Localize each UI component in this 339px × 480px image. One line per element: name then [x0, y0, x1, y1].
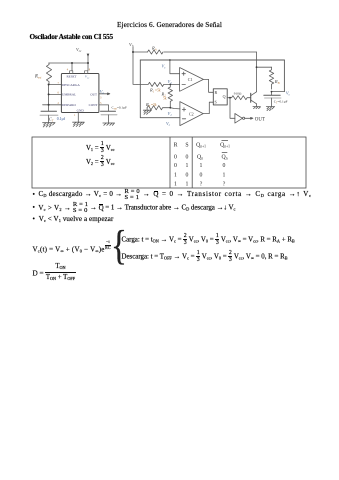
svg-text:4: 4 — [67, 68, 69, 71]
svg-text:5k: 5k — [163, 97, 167, 101]
svg-text:0: 0 — [174, 163, 177, 169]
svg-text:5: 5 — [100, 102, 102, 105]
svg-text:RA: RA — [151, 46, 157, 52]
svg-text:DISPARO: DISPARO — [62, 103, 76, 107]
svg-text:CONT: CONT — [89, 103, 98, 107]
svg-text:R: R — [215, 90, 218, 95]
svg-text:0.1µf: 0.1µf — [57, 117, 66, 121]
svg-text:R3=5k: R3=5k — [145, 102, 157, 108]
svg-text:GND: GND — [77, 108, 85, 112]
svg-text:8: 8 — [89, 68, 91, 71]
svg-text:Qn: Qn — [197, 154, 203, 160]
svg-text:Rext: Rext — [34, 75, 42, 80]
svg-text:Vcc: Vcc — [85, 75, 90, 80]
svg-text:RESET: RESET — [67, 74, 77, 78]
svg-text:V+: V+ — [129, 42, 134, 47]
svg-text:910Ω: 910Ω — [234, 92, 242, 96]
svg-text:3: 3 — [100, 96, 102, 99]
svg-text:RB: RB — [274, 79, 280, 85]
svg-text:0: 0 — [200, 173, 203, 179]
svg-text:1: 1 — [74, 114, 76, 117]
svg-text:S: S — [185, 142, 188, 148]
svg-text:UMBRAL: UMBRAL — [62, 93, 76, 97]
svg-text:1: 1 — [186, 182, 189, 188]
svg-text:1: 1 — [223, 173, 226, 179]
svg-text:CT: CT — [49, 116, 54, 122]
svg-text:0: 0 — [223, 163, 226, 169]
svg-text:?: ? — [223, 182, 226, 188]
svg-text:OUT: OUT — [255, 118, 265, 123]
svg-text:DESCARGA: DESCARGA — [62, 83, 80, 87]
svg-text:Qn+1: Qn+1 — [220, 142, 230, 148]
svg-text:1: 1 — [200, 163, 203, 169]
svg-text:CT=0.1µF: CT=0.1µF — [274, 100, 288, 105]
svg-text:OUT: OUT — [90, 93, 97, 97]
svg-text:C1: C1 — [188, 77, 193, 82]
svg-text:Cext=0.1µF: Cext=0.1µF — [112, 106, 128, 111]
svg-text:Vcc: Vcc — [76, 47, 82, 53]
svg-text:1: 1 — [174, 182, 177, 188]
svg-text:?: ? — [200, 182, 203, 188]
svg-text:S: S — [215, 100, 217, 105]
svg-text:0: 0 — [174, 154, 177, 160]
svg-text:Vc: Vc — [166, 121, 171, 127]
svg-text:0: 0 — [186, 173, 189, 179]
svg-text:1: 1 — [174, 173, 177, 179]
svg-text:Vc: Vc — [162, 64, 167, 70]
svg-text:R1=5k: R1=5k — [149, 87, 161, 93]
svg-text:Q: Q — [223, 94, 226, 99]
svg-text:0: 0 — [186, 154, 189, 160]
svg-text:V1: V1 — [168, 111, 173, 117]
svg-text:1: 1 — [186, 163, 189, 169]
svg-text:C2: C2 — [189, 112, 194, 117]
svg-text:R: R — [174, 142, 178, 148]
svg-text:Qn: Qn — [222, 154, 228, 160]
svg-text:Qn+1: Qn+1 — [196, 142, 206, 148]
svg-text:Vo: Vo — [100, 89, 105, 95]
svg-text:Vc: Vc — [286, 91, 291, 97]
